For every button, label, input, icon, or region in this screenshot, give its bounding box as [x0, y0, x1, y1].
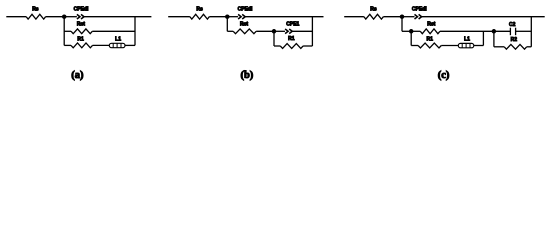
wire: nested R2 branch left segment (c)	[494, 46, 504, 48]
wire: Rs to node C1	[383, 16, 402, 18]
wire: L1 to right bus (a)	[125, 44, 135, 46]
CPE CPEdl (c): double chevron	[415, 14, 418, 19]
resistor R1 (c)	[418, 43, 441, 48]
svg-text:Rct: Rct	[427, 22, 435, 28]
wire: riser from bottom branch up to middle branch (c)	[482, 31, 484, 45]
wire: middle branch right segment (a)	[92, 30, 135, 32]
svg-text:Rs: Rs	[196, 7, 203, 13]
wire: left vertical bus (c)	[401, 17, 403, 32]
wire: left lead of circuit c	[344, 16, 364, 18]
wire: C2 capacitor to right bus (c)	[516, 30, 532, 32]
svg-text:CPE1: CPE1	[286, 22, 299, 28]
resistor R1 (b)	[280, 44, 303, 49]
wire: left vertical bus (b)	[226, 17, 228, 32]
wire: CPE1 to right bus (b)	[293, 30, 313, 32]
inductor L1 (c): coil pill	[458, 43, 474, 47]
wire: R1 to L1 (c)	[441, 45, 458, 47]
CPE CPEdl (b): double chevron	[238, 14, 241, 19]
wire: bottom branch left segment (c)	[411, 45, 418, 47]
inductor L1 (a): coil pill	[109, 43, 125, 47]
svg-text:(b): (b)	[240, 70, 253, 81]
wire: top rail into CPEdl (c)	[402, 16, 415, 18]
resistor Rct (c)	[420, 29, 440, 34]
node C3 (junction dot, c)	[492, 29, 497, 34]
wire: bottom branch left segment (a)	[64, 44, 71, 46]
wire: Rs to node A1	[46, 16, 65, 18]
resistor Rs (b)	[190, 14, 209, 19]
wire: node B2 into CPE1 (b)	[274, 30, 285, 32]
svg-text:CPEdl: CPEdl	[412, 7, 427, 13]
wire: top rail into CPEdl (b)	[227, 16, 238, 18]
node B1 (junction dot, b)	[225, 14, 230, 19]
wire: nested bottom branch right segment (b)	[303, 45, 312, 47]
svg-text:R1: R1	[426, 37, 433, 43]
wire: nested vertical from node B2 (b)	[273, 31, 275, 46]
resistor Rct (a)	[71, 29, 92, 34]
resistor Rct (b)	[233, 29, 256, 34]
wire: right vertical bus (c)	[530, 17, 532, 47]
svg-text:Rs: Rs	[32, 7, 39, 13]
wire: top rail CPEdl to right bus and output stub (b)	[246, 16, 324, 18]
wire: top rail CPEdl to right bus and output stub (a)	[84, 16, 151, 18]
svg-text:Rct: Rct	[77, 22, 85, 28]
capacitor C2 (c): parallel plates	[510, 28, 515, 36]
wire: right vertical bus (a)	[134, 17, 136, 46]
svg-text:CPEdl: CPEdl	[238, 7, 253, 13]
svg-text:R1: R1	[288, 36, 295, 42]
svg-text:Rct: Rct	[240, 22, 248, 28]
resistor Rs (c)	[364, 14, 384, 19]
wire: middle branch left segment (b)	[227, 30, 233, 32]
node A1 (junction dot, a)	[62, 14, 67, 19]
wire: nested bottom branch left segment (b)	[274, 45, 280, 47]
svg-text:Rs: Rs	[370, 7, 377, 13]
CPE CPEdl (a): double chevron	[77, 14, 80, 19]
wire: Rs to node B1	[209, 16, 227, 18]
svg-text:(a): (a)	[71, 70, 84, 81]
svg-text:R2: R2	[511, 37, 518, 43]
svg-text:CPEdl: CPEdl	[74, 7, 89, 13]
wire: L1 to riser (c)	[474, 45, 484, 47]
svg-text:C2: C2	[509, 22, 516, 28]
wire: left lead of circuit a	[6, 16, 26, 18]
svg-text:(c): (c)	[438, 70, 450, 81]
resistor R2 (c)	[504, 44, 527, 49]
svg-text:L1: L1	[115, 37, 121, 43]
resistor R1 (a)	[71, 43, 93, 48]
wire: Rct to node B2	[256, 30, 274, 32]
node C2 (junction dot, c)	[409, 29, 414, 34]
CPE CPE1 (b): double chevron	[285, 29, 288, 34]
wire: left vertical bus (a)	[63, 17, 65, 46]
wire: top rail into CPEdl (a)	[64, 16, 77, 18]
wire: left lead of circuit b	[168, 16, 190, 18]
wire: top rail CPEdl to right bus and output stub (c)	[422, 16, 545, 18]
svg-text:L1: L1	[464, 37, 470, 43]
wire: node C3 into C2 capacitor	[494, 30, 511, 32]
node B2 (junction dot, b)	[272, 29, 277, 34]
node C1 (junction dot, c)	[400, 14, 405, 19]
wire: node C2 into Rct (c)	[411, 30, 420, 32]
wire: middle branch left segment (a)	[64, 30, 71, 32]
resistor Rs (a)	[26, 14, 45, 19]
wire: vertical from node C2 to bottom branch (c)	[410, 31, 412, 45]
wire: nested R2 branch right segment (c)	[527, 46, 532, 48]
wire: nested vertical from node C3 down to R2 branch (c)	[493, 31, 495, 47]
svg-text:R1: R1	[77, 37, 84, 43]
wire: middle branch Rct to node C3	[440, 30, 494, 32]
wire: middle branch from bus to node C2	[402, 30, 411, 32]
wire: right vertical bus (b)	[311, 17, 313, 46]
wire: R1 to L1 (a)	[93, 44, 110, 46]
